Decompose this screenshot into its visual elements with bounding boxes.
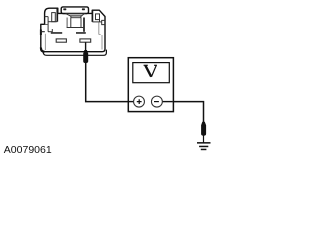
svg-text:A0079061: A0079061 <box>4 144 52 156</box>
